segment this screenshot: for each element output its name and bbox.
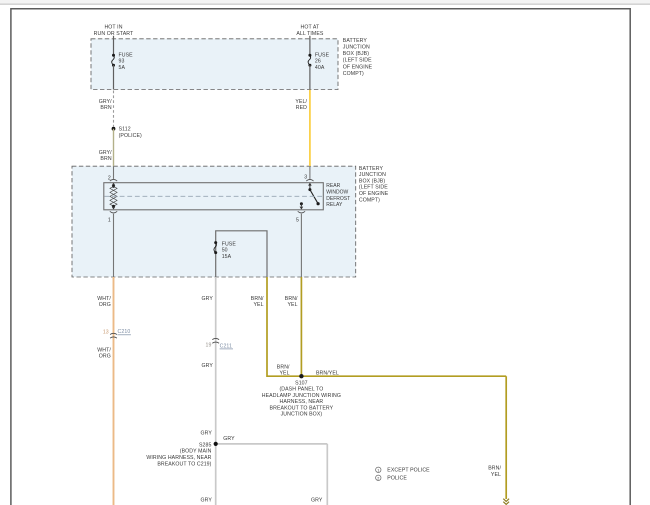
svg-text:3: 3 [304,174,307,180]
svg-text:GRY/: GRY/ [99,99,112,105]
svg-text:(BODY MAIN: (BODY MAIN [180,449,212,455]
svg-text:BATTERY: BATTERY [359,166,384,172]
svg-text:DEFROST: DEFROST [326,196,350,202]
svg-text:FUSE: FUSE [222,242,237,248]
svg-text:GRY: GRY [223,436,235,442]
svg-text:REAR: REAR [326,183,340,189]
svg-text:OF ENGINE: OF ENGINE [343,64,373,70]
svg-text:WINDOW: WINDOW [326,190,348,196]
svg-text:RUN OR START: RUN OR START [94,31,134,37]
svg-text:FUSE: FUSE [315,53,330,59]
svg-text:BOX (BJB): BOX (BJB) [359,178,385,184]
svg-text:1: 1 [108,218,111,224]
svg-text:BRN: BRN [100,156,111,162]
svg-text:BRN: BRN [100,105,111,111]
svg-text:FUSE: FUSE [119,53,134,59]
svg-text:JUNCTION: JUNCTION [343,45,370,51]
svg-text:ORG: ORG [99,302,111,308]
svg-text:1: 1 [377,469,379,473]
svg-text:S107: S107 [295,381,308,387]
svg-text:26: 26 [315,59,321,65]
svg-text:GRY: GRY [201,296,213,302]
svg-text:2: 2 [108,175,111,181]
svg-text:GRY: GRY [201,363,213,369]
svg-text:13: 13 [103,330,109,336]
svg-text:(DASH PANEL TO: (DASH PANEL TO [279,387,323,393]
svg-text:YEL: YEL [491,472,501,478]
svg-text:JUNCTION BOX): JUNCTION BOX) [281,412,323,418]
svg-text:HEADLAMP JUNCTION WIRING: HEADLAMP JUNCTION WIRING [262,393,341,399]
svg-text:19: 19 [206,343,212,349]
svg-text:YEL: YEL [279,370,289,376]
svg-text:JUNCTION: JUNCTION [359,172,386,178]
svg-text:50: 50 [222,248,228,254]
svg-text:RELAY: RELAY [326,202,343,208]
svg-text:OF ENGINE: OF ENGINE [359,191,389,197]
svg-text:ORG: ORG [99,353,111,359]
svg-text:93: 93 [119,59,125,65]
svg-text:40A: 40A [315,65,325,71]
svg-text:(LEFT SIDE: (LEFT SIDE [359,185,388,191]
svg-text:WIRING HARNESS, NEAR: WIRING HARNESS, NEAR [146,455,211,461]
svg-text:5: 5 [296,218,299,224]
svg-text:BRN/: BRN/ [285,296,298,302]
svg-text:(POLICE): (POLICE) [119,133,142,139]
svg-text:S112: S112 [119,127,131,133]
svg-text:COMPT): COMPT) [343,71,364,77]
svg-text:(LEFT SIDE: (LEFT SIDE [343,58,372,64]
svg-text:S285: S285 [199,442,212,448]
svg-text:2: 2 [377,477,379,481]
svg-text:WHT/: WHT/ [97,347,111,353]
svg-text:YEL: YEL [287,302,297,308]
svg-text:BATTERY: BATTERY [343,38,368,44]
svg-text:BRN/: BRN/ [277,364,290,370]
svg-text:YEL: YEL [253,302,263,308]
svg-text:GRY/: GRY/ [99,150,112,156]
svg-text:WHT/: WHT/ [97,296,111,302]
svg-text:RED: RED [296,105,307,111]
svg-text:BRN/: BRN/ [251,296,264,302]
svg-text:EXCEPT POLICE: EXCEPT POLICE [387,468,430,474]
svg-text:BOX (BJB): BOX (BJB) [343,51,369,57]
svg-text:COMPT): COMPT) [359,197,380,203]
svg-text:BREAKOUT TO C219): BREAKOUT TO C219) [157,461,211,467]
svg-text:BREAKOUT TO BATTERY: BREAKOUT TO BATTERY [270,405,334,411]
svg-text:15A: 15A [222,254,232,260]
svg-text:HARNESS, NEAR: HARNESS, NEAR [280,399,324,405]
svg-text:BRN/YEL: BRN/YEL [316,371,339,377]
svg-text:GRY: GRY [201,498,213,504]
svg-text:BRN/: BRN/ [488,466,501,472]
svg-text:HOT IN: HOT IN [104,25,122,31]
svg-text:POLICE: POLICE [387,476,407,482]
svg-text:GRY: GRY [311,498,323,504]
svg-text:HOT AT: HOT AT [300,25,320,31]
svg-text:YEL/: YEL/ [295,99,307,105]
svg-text:GRY: GRY [201,430,213,436]
svg-text:ALL TIMES: ALL TIMES [296,31,324,37]
svg-text:C210: C210 [118,329,131,335]
svg-text:5A: 5A [119,65,126,71]
svg-text:C211: C211 [220,343,232,349]
